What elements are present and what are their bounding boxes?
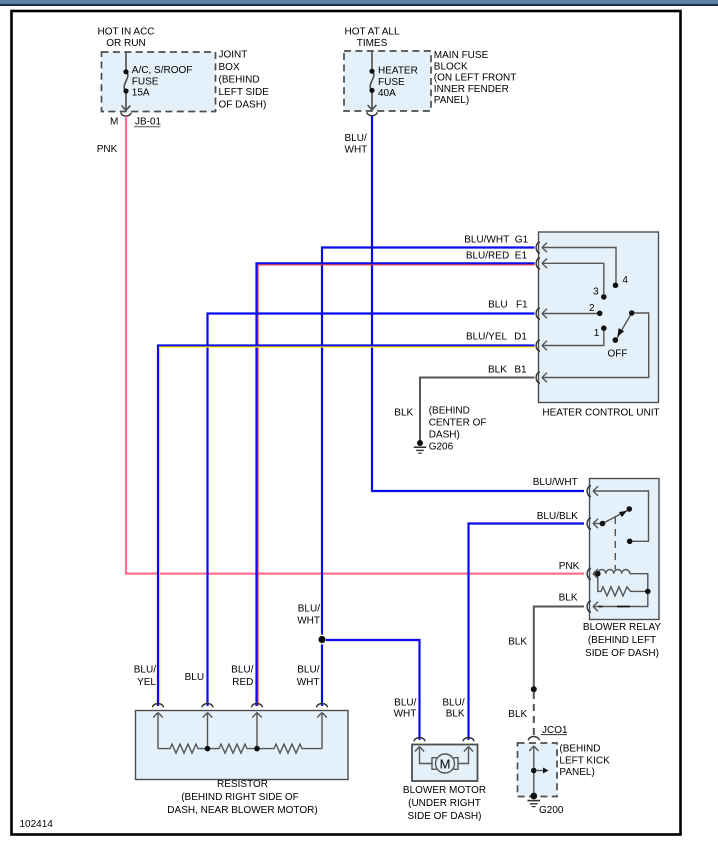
contact OFF xyxy=(613,337,619,343)
pin E1 arrow and wire to position 3 contact xyxy=(542,259,547,269)
connector arc at JCO1 xyxy=(528,737,539,741)
svg-text:WHT: WHT xyxy=(297,677,320,688)
contact position 4 xyxy=(613,283,619,289)
resistor element 1 (zigzag) xyxy=(158,744,208,753)
contact position 1 xyxy=(601,325,607,331)
switch pivot contact xyxy=(629,310,635,316)
svg-text:G1: G1 xyxy=(515,234,529,245)
svg-text:(BEHIND: (BEHIND xyxy=(219,75,260,86)
joint box JB (dashed box) xyxy=(102,52,216,112)
svg-text:HEATER CONTROL UNIT: HEATER CONTROL UNIT xyxy=(542,408,659,419)
wire label BLU, pin label F1 xyxy=(488,300,528,311)
input arrow tap 2 xyxy=(203,713,213,718)
right input arrow xyxy=(464,747,473,752)
wire label BLU/WHT at resistor xyxy=(297,665,320,688)
armature tip contact dot xyxy=(627,506,633,512)
svg-text:BLU/: BLU/ xyxy=(134,665,156,676)
pin B1 arrow and wire to switch pivot xyxy=(542,373,547,383)
svg-text:PANEL): PANEL) xyxy=(434,95,469,106)
svg-text:SIDE OF DASH): SIDE OF DASH) xyxy=(585,648,659,659)
svg-text:MAIN FUSE: MAIN FUSE xyxy=(434,50,489,61)
svg-text:BLOWER MOTOR: BLOWER MOTOR xyxy=(403,785,486,796)
svg-text:G206: G206 xyxy=(429,441,454,452)
blower relay K1 (box) xyxy=(590,479,660,620)
heater control unit U1 (box) xyxy=(539,232,659,403)
svg-text:LEFT SIDE: LEFT SIDE xyxy=(219,87,270,98)
svg-text:CENTER OF: CENTER OF xyxy=(429,418,487,429)
right brush bracket xyxy=(454,758,459,770)
wire BLU/WHT from HCU pin G1 to resistor xyxy=(322,248,535,707)
input arrow tap 3 xyxy=(252,713,262,718)
svg-text:(ON LEFT FRONT: (ON LEFT FRONT xyxy=(434,73,517,84)
wire label BLK, pin label B1 xyxy=(488,365,527,376)
svg-text:BLK: BLK xyxy=(559,593,578,604)
power source label HOT IN ACC OR RUN xyxy=(97,26,154,49)
label (BEHIND LEFT KICK PANEL) xyxy=(559,744,610,778)
switch lever from pivot toward OFF xyxy=(617,313,632,338)
wire BLU/WHT from heater fuse to blower relay xyxy=(372,116,584,491)
svg-text:BLU/YEL: BLU/YEL xyxy=(466,332,508,343)
svg-text:3: 3 xyxy=(593,287,599,298)
svg-text:15A: 15A xyxy=(132,88,150,99)
svg-text:BLOWER RELAY: BLOWER RELAY xyxy=(583,622,661,633)
svg-text:BLK: BLK xyxy=(508,709,527,720)
svg-text:B1: B1 xyxy=(514,365,527,376)
wire label BLU/RED, pin label E1 xyxy=(466,250,528,261)
resistor element 2 (zigzag) xyxy=(208,744,258,753)
svg-text:HOT AT ALL: HOT AT ALL xyxy=(344,26,399,37)
svg-text:OFF: OFF xyxy=(608,349,628,360)
svg-text:2: 2 xyxy=(589,303,595,314)
JCO1 internal wire with input arrow xyxy=(529,746,543,796)
svg-text:BLU/WHT: BLU/WHT xyxy=(464,234,509,245)
svg-text:(BEHIND LEFT: (BEHIND LEFT xyxy=(588,635,656,646)
armature contact dot xyxy=(600,521,606,527)
svg-text:(BEHIND: (BEHIND xyxy=(429,406,470,417)
svg-text:BLU: BLU xyxy=(488,300,507,311)
blower motor M1 (box) xyxy=(412,745,478,782)
svg-text:PNK: PNK xyxy=(559,561,580,572)
svg-text:PNK: PNK xyxy=(97,144,118,155)
relay actuator dashed link xyxy=(614,517,616,570)
connector arcs at motor inputs xyxy=(414,738,474,742)
svg-text:BLU: BLU xyxy=(185,672,204,683)
svg-text:TIMES: TIMES xyxy=(357,38,388,49)
svg-text:DASH): DASH) xyxy=(429,429,460,440)
svg-text:WHT: WHT xyxy=(345,144,368,155)
svg-text:BLK: BLK xyxy=(488,365,507,376)
svg-text:A/C, S/ROOF: A/C, S/ROOF xyxy=(132,65,193,76)
wire PNK from JB-01 to blower relay xyxy=(126,116,584,573)
caption RESISTOR (BEHIND RIGHT SIDE OF DASH, NEAR BLOWER MOTOR) xyxy=(167,779,317,816)
wire BLK from relay toward JCO1 xyxy=(534,607,584,688)
BLK pin arrow and wire to coil return xyxy=(593,602,598,612)
svg-text:FUSE: FUSE xyxy=(378,77,405,88)
ground G206 xyxy=(414,440,426,453)
svg-text:BLK: BLK xyxy=(394,408,413,419)
svg-text:BLK: BLK xyxy=(446,708,465,719)
svg-text:40A: 40A xyxy=(378,88,396,99)
HCU internal wiring: fan switch SW1 xyxy=(542,243,649,383)
connector arcs at relay pins xyxy=(587,486,591,612)
svg-text:M: M xyxy=(440,757,451,772)
ground G200 xyxy=(528,801,541,807)
relay K1 internal wiring xyxy=(593,486,649,611)
left input arrow xyxy=(415,747,424,752)
svg-text:4: 4 xyxy=(622,275,628,286)
armature arrowhead xyxy=(619,511,627,517)
PNK pin arrow xyxy=(593,569,598,579)
svg-text:BLU/: BLU/ xyxy=(297,665,319,676)
svg-text:HEATER: HEATER xyxy=(378,66,418,77)
contact position 3 xyxy=(601,294,607,300)
svg-text:JB-01: JB-01 xyxy=(135,117,162,128)
junction connector JCO1 (dashed box) xyxy=(518,743,558,797)
ground junction dot xyxy=(530,793,537,800)
svg-text:HOT IN ACC: HOT IN ACC xyxy=(97,26,154,37)
svg-text:G200: G200 xyxy=(539,805,564,816)
coil input dot xyxy=(595,571,601,577)
svg-text:WHT: WHT xyxy=(394,708,417,719)
svg-text:102414: 102414 xyxy=(20,819,54,830)
wire BLU/BLK from relay to blower motor xyxy=(469,524,585,741)
svg-text:BLU/: BLU/ xyxy=(231,665,253,676)
relay coil L1 xyxy=(598,570,630,574)
svg-text:(BEHIND: (BEHIND xyxy=(559,744,600,755)
motor symbol M xyxy=(436,754,455,773)
tap 2 junction dot xyxy=(205,746,211,752)
node JB-01 xyxy=(134,117,162,128)
branch junction dot xyxy=(531,768,537,774)
svg-text:PANEL): PANEL) xyxy=(559,767,594,778)
switch lever arrowhead xyxy=(617,328,624,337)
svg-text:D1: D1 xyxy=(514,332,527,343)
svg-text:BLK: BLK xyxy=(508,637,527,648)
caption BLOWER MOTOR (UNDER RIGHT SIDE OF DASH) xyxy=(403,785,486,822)
wire BLU from HCU pin F1 to resistor xyxy=(208,314,535,707)
svg-text:(UNDER RIGHT: (UNDER RIGHT xyxy=(408,798,481,809)
wire label BLU/YEL, pin label D1 xyxy=(466,332,527,343)
svg-text:OF DASH): OF DASH) xyxy=(219,100,267,111)
junction dot on BLK wire xyxy=(531,686,537,692)
svg-text:RED: RED xyxy=(232,677,253,688)
wire label BLU/RED at resistor xyxy=(231,665,253,688)
fuse F2 HEATER 40A xyxy=(368,51,377,110)
tap 3 junction dot xyxy=(254,746,260,752)
wire BLK from HCU pin B1 to ground G206 xyxy=(420,378,535,441)
input arrow tap 1 xyxy=(153,713,163,718)
svg-text:BLU/: BLU/ xyxy=(442,698,464,709)
svg-text:WHT: WHT xyxy=(297,615,320,626)
svg-text:BLU/WHT: BLU/WHT xyxy=(533,477,578,488)
wire label BLU/WHT, pin label G1 xyxy=(464,234,528,245)
wire BLU/YEL from HCU pin D1 to resistor xyxy=(158,346,535,707)
svg-text:BLU/: BLU/ xyxy=(394,698,416,709)
svg-text:M: M xyxy=(110,117,118,128)
svg-text:BLOCK: BLOCK xyxy=(434,61,468,72)
wire BLK dashed segment to JCO1 xyxy=(533,692,535,736)
svg-text:BLU/: BLU/ xyxy=(298,603,320,614)
svg-text:F1: F1 xyxy=(516,300,528,311)
coil/resistor junction dot xyxy=(645,589,651,595)
svg-text:BLU/RED: BLU/RED xyxy=(466,250,509,261)
resistor pack R1 (box) xyxy=(136,711,349,780)
branch arrow to other circuits xyxy=(543,768,549,774)
svg-text:RESISTOR: RESISTOR xyxy=(217,779,268,790)
svg-text:LEFT KICK: LEFT KICK xyxy=(559,755,610,766)
svg-text:INNER FENDER: INNER FENDER xyxy=(434,84,509,95)
BLU/WHT pin arrow and wire to fixed contact xyxy=(593,486,598,496)
value label A/C, S/ROOF FUSE 15A xyxy=(132,65,193,99)
connector cup at JB-01 xyxy=(121,113,131,117)
fuse F1 A/C, S/ROOF 15A xyxy=(122,52,131,110)
motor M1 internal wiring and brushes xyxy=(415,747,473,770)
svg-text:1: 1 xyxy=(594,328,600,339)
wire label BLU/WHT above junction xyxy=(297,603,320,626)
resistor R1 internal elements xyxy=(153,713,327,754)
BLU/BLK pin arrow and wire to armature xyxy=(593,519,598,529)
svg-text:BOX: BOX xyxy=(219,62,240,73)
connector arcs at HCU pins G1 E1 F1 D1 B1 xyxy=(536,242,540,383)
resistor element 3 (zigzag) xyxy=(257,744,322,753)
connector cup below main fuse block xyxy=(367,112,377,116)
pin D1 arrow and wire to position 1 contact xyxy=(542,341,547,351)
junction dot BLU/WHT branch to blower motor xyxy=(317,635,327,645)
node JCO1 xyxy=(541,725,568,736)
svg-text:OR RUN: OR RUN xyxy=(106,38,145,49)
label JOINT BOX (BEHIND LEFT SIDE OF DASH) xyxy=(219,50,270,111)
wire label BLU/WHT at motor xyxy=(394,698,417,720)
wire label BLU/YEL at resistor xyxy=(134,665,157,688)
svg-text:JOINT: JOINT xyxy=(219,50,248,61)
wire BLU/RED from HCU pin E1 to resistor xyxy=(257,263,535,706)
contact position 2 xyxy=(597,311,603,317)
main fuse block (dashed box) xyxy=(344,51,431,111)
svg-text:E1: E1 xyxy=(515,250,528,261)
wire BLU/WHT branch to blower motor xyxy=(326,640,420,740)
left brush bracket xyxy=(432,758,437,770)
input arrow tap 4 xyxy=(317,713,327,718)
svg-text:DASH, NEAR BLOWER MOTOR): DASH, NEAR BLOWER MOTOR) xyxy=(167,805,317,816)
svg-text:SIDE OF DASH): SIDE OF DASH) xyxy=(408,811,482,822)
coil shunt resistor R2 (zigzag) xyxy=(598,574,648,596)
label (BEHIND CENTER OF DASH) G206 xyxy=(429,406,487,453)
pin F1 arrow and wire to position 2 contact xyxy=(542,309,547,319)
svg-text:(BEHIND RIGHT SIDE OF: (BEHIND RIGHT SIDE OF xyxy=(181,792,299,803)
connector arcs at resistor inputs xyxy=(153,704,328,708)
wire label BLU/BLK at motor xyxy=(442,698,465,720)
caption BLOWER RELAY (BEHIND LEFT SIDE OF DASH) xyxy=(583,622,661,659)
junction dot xyxy=(318,636,325,643)
svg-text:BLU/BLK: BLU/BLK xyxy=(537,511,578,522)
dark dash marks on BLK return xyxy=(599,606,631,608)
label MAIN FUSE BLOCK (ON LEFT FRONT INNER FENDER PANEL) xyxy=(434,50,517,106)
svg-text:BLU/: BLU/ xyxy=(345,133,367,144)
relay armature lever xyxy=(603,510,629,524)
wire label BLU/WHT xyxy=(345,133,368,155)
fixed contact dot xyxy=(627,539,633,545)
power source label HOT AT ALL TIMES xyxy=(344,26,399,49)
pin G1 arrow and wire to position 4 contact xyxy=(542,243,547,253)
svg-text:FUSE: FUSE xyxy=(132,77,159,88)
svg-text:YEL: YEL xyxy=(137,677,156,688)
value label HEATER FUSE 40A xyxy=(378,66,418,100)
